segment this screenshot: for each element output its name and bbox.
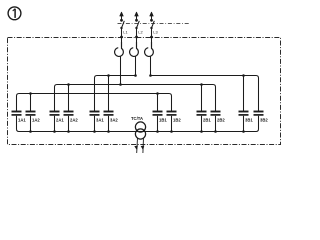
svg-text:3A1: 3A1 xyxy=(96,118,104,123)
svg-text:2B1: 2B1 xyxy=(203,118,211,123)
svg-text:L2: L2 xyxy=(138,30,142,35)
switch Q1 phase 1 xyxy=(120,19,124,29)
capacitor 1A2 xyxy=(26,112,41,132)
enclosure dash-dot border xyxy=(8,38,281,145)
supply arrow phase 2 xyxy=(135,12,138,20)
wire phase 2 below loop to feeder A-left xyxy=(135,56,137,76)
feeder A-right (y=75.5) pair R3 xyxy=(149,74,258,111)
capacitor 2A2 xyxy=(64,112,79,132)
wire phase 2 drop with bushing dot xyxy=(135,28,138,47)
switch mechanical linkage (dash-dot) xyxy=(118,23,191,25)
switch Q3 phase 3 xyxy=(150,19,154,29)
capacitor 2B1 xyxy=(197,112,212,132)
svg-text:2B2: 2B2 xyxy=(217,118,225,123)
wire phase 1 below loop to feeder B xyxy=(120,56,122,85)
capacitor 3B2 xyxy=(254,112,269,123)
feeder A-left (y=75.5) pair L3 xyxy=(95,74,137,111)
svg-text:3B1: 3B1 xyxy=(245,118,253,123)
CT secondary leads with arrows xyxy=(134,138,145,153)
switch Q2 phase 2 xyxy=(135,19,139,29)
supply arrow phase 3 xyxy=(150,12,153,20)
neutral bus (star point) xyxy=(17,116,259,133)
capacitor 2A1 xyxy=(50,112,65,132)
svg-text:2A1: 2A1 xyxy=(56,118,64,123)
wire phase 1 drop with bushing dot xyxy=(120,28,123,47)
current transformer loop TA2 phase 2 xyxy=(130,42,139,56)
figure number 1 (circled) xyxy=(8,7,21,20)
wire phase 3 below loop to feeder A-right xyxy=(150,56,152,76)
unbalance current transformer TC/TA (two circles) xyxy=(131,116,146,139)
supply arrow phase 1 xyxy=(120,12,123,20)
capacitor 3B1 xyxy=(239,112,254,132)
capacitor 2B2 xyxy=(211,112,226,132)
svg-text:3A2: 3A2 xyxy=(110,118,118,123)
svg-text:3B2: 3B2 xyxy=(260,118,268,123)
capacitor 1B1 xyxy=(153,112,168,132)
svg-text:1B1: 1B1 xyxy=(159,118,167,123)
svg-text:TC/TA: TC/TA xyxy=(131,116,143,121)
svg-text:1B2: 1B2 xyxy=(173,118,181,123)
capacitor 3A1 xyxy=(90,112,105,132)
svg-text:2A2: 2A2 xyxy=(70,118,78,123)
current transformer loop TA1 phase 1 xyxy=(115,42,124,56)
svg-text:L3: L3 xyxy=(153,30,157,35)
capacitor 1A1 xyxy=(12,112,27,123)
capacitor 3A2 xyxy=(104,112,119,132)
capacitor 1B2 xyxy=(167,112,182,132)
svg-text:1A1: 1A1 xyxy=(18,118,26,123)
svg-text:1A2: 1A2 xyxy=(32,118,40,123)
wire phase 3 drop with bushing dot xyxy=(150,28,153,47)
feeder B (y=85) pairs L2 and R2 xyxy=(55,83,216,111)
svg-text:L1: L1 xyxy=(123,30,127,35)
current transformer loop TA3 phase 3 xyxy=(145,42,154,56)
feeder C (y=93.5) pairs L1 and R1 xyxy=(17,92,172,111)
